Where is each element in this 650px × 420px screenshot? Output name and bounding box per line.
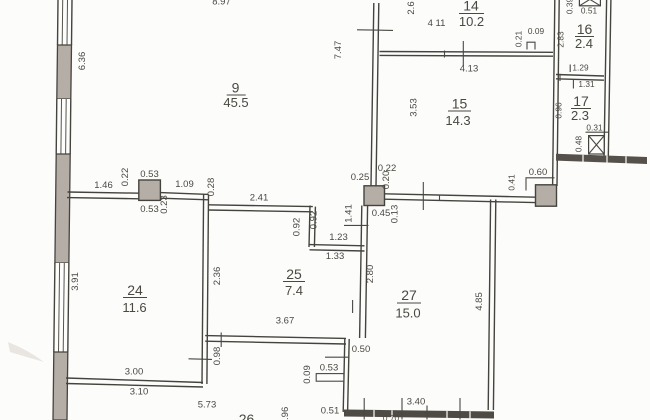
small tick on corridor wall xyxy=(439,195,441,201)
svg-text:0.53: 0.53 xyxy=(140,204,159,215)
tick for 1.29 xyxy=(569,65,571,73)
svg-text:2.4: 2.4 xyxy=(575,36,593,51)
svg-text:3.67: 3.67 xyxy=(276,316,295,327)
dimension tick 7.47 crossing wall 9/14 xyxy=(357,29,393,32)
svg-text:4 11: 4 11 xyxy=(428,18,446,29)
room 15 label xyxy=(445,96,471,129)
wall between rooms 9 and 24, right part xyxy=(160,193,208,200)
svg-text:14: 14 xyxy=(463,0,479,14)
svg-text:0.09: 0.09 xyxy=(528,26,545,36)
svg-text:26: 26 xyxy=(239,411,255,420)
joint tick on wall 14/15 xyxy=(444,51,446,58)
svg-text:0.51: 0.51 xyxy=(581,6,598,16)
bracket line for 1.41 xyxy=(344,224,369,226)
svg-text:27: 27 xyxy=(401,287,417,303)
svg-text:0.31: 0.31 xyxy=(586,123,603,133)
svg-text:0.45: 0.45 xyxy=(372,208,391,219)
svg-text:0.92: 0.92 xyxy=(292,218,303,237)
svg-text:5.73: 5.73 xyxy=(198,400,217,411)
svg-text:1.33: 1.33 xyxy=(326,251,345,262)
wall left of niche 16/17 column xyxy=(553,0,560,186)
svg-text:24: 24 xyxy=(127,282,143,298)
svg-text:0.96: 0.96 xyxy=(554,102,564,119)
bracket line for 0.31 xyxy=(586,131,609,133)
svg-text:0.41: 0.41 xyxy=(507,174,517,191)
svg-text:0.39: 0.39 xyxy=(565,0,575,14)
svg-text:0.92: 0.92 xyxy=(309,211,320,230)
svg-text:1.31: 1.31 xyxy=(578,79,595,89)
ventilation box top of column 16 xyxy=(579,0,600,6)
left outer wall: solid segment 2 xyxy=(55,154,70,263)
svg-text:11.6: 11.6 xyxy=(122,300,146,315)
svg-text:45.5: 45.5 xyxy=(223,95,248,110)
room 9 label xyxy=(223,80,248,111)
svg-text:1.23: 1.23 xyxy=(329,232,348,243)
room 17 label xyxy=(571,93,591,123)
corridor wall (top of room 27) xyxy=(385,194,536,203)
wall between rooms 9 and 24, left part xyxy=(67,192,139,199)
bracket for 0.41 at pillar xyxy=(526,178,555,191)
left outer wall: solid segment 1 xyxy=(57,45,72,99)
tick left of wall 25/27 xyxy=(352,300,354,313)
tick for 1.31 xyxy=(572,80,574,89)
svg-text:0.51: 0.51 xyxy=(321,406,340,417)
ticks crossing bottom outer wall xyxy=(364,398,460,420)
wall between 16 and 17 xyxy=(556,75,604,81)
svg-text:2.83: 2.83 xyxy=(556,31,566,48)
room 14 label xyxy=(459,0,484,29)
hatched slab below 16/17 column xyxy=(556,154,647,164)
svg-text:1.29: 1.29 xyxy=(572,63,589,73)
svg-text:0.09: 0.09 xyxy=(302,365,313,384)
svg-text:3.91: 3.91 xyxy=(70,272,81,291)
tick on room 25 bottom wall xyxy=(220,333,222,348)
svg-text:0.48: 0.48 xyxy=(574,136,584,153)
room 27 label xyxy=(395,287,421,321)
left outer wall: window segment 1 xyxy=(58,0,73,45)
svg-text:2.3: 2.3 xyxy=(571,108,589,123)
svg-text:25: 25 xyxy=(286,266,302,282)
right outer wall xyxy=(604,0,611,157)
left outer wall: window segment 3 xyxy=(54,263,69,352)
svg-text:2.6: 2.6 xyxy=(406,1,417,14)
tick for 0.98 crossing wall 24/25 xyxy=(189,358,213,361)
svg-text:0.60: 0.60 xyxy=(529,167,548,178)
faint scan smudge bottom-left xyxy=(8,342,44,362)
svg-text:0.28: 0.28 xyxy=(206,178,217,197)
svg-text:0.23: 0.23 xyxy=(159,195,170,214)
room 27 left wall lower part xyxy=(343,339,349,412)
svg-text:9: 9 xyxy=(232,80,240,96)
tick at left end of wall 16/17 xyxy=(559,74,561,81)
svg-text:0.98: 0.98 xyxy=(212,347,223,366)
svg-text:1.41: 1.41 xyxy=(344,204,355,223)
stepped wall room 25: lower horizontal xyxy=(310,245,365,251)
svg-text:2.80: 2.80 xyxy=(365,265,376,284)
svg-text:6.36: 6.36 xyxy=(77,52,88,71)
room 27 right wall xyxy=(488,200,496,411)
svg-text:3.40: 3.40 xyxy=(407,397,426,408)
room 25 label xyxy=(283,266,305,298)
svg-text:4.85: 4.85 xyxy=(474,292,485,311)
door niche symbol on wall 14/15 xyxy=(527,42,535,49)
room 27 bottom outer wall (hatched) xyxy=(344,410,494,419)
svg-text:16: 16 xyxy=(577,21,593,37)
svg-text:0.53: 0.53 xyxy=(140,169,159,180)
svg-text:0.25: 0.25 xyxy=(351,172,370,183)
svg-text:0.50: 0.50 xyxy=(352,344,371,355)
pillar at corridor right xyxy=(536,185,557,206)
wall between rooms 9 and 14/15 xyxy=(371,3,379,186)
svg-text:3.53: 3.53 xyxy=(409,98,420,117)
svg-text:8.97: 8.97 xyxy=(212,0,231,8)
room 16 label xyxy=(575,21,594,51)
svg-text:7.47: 7.47 xyxy=(333,41,344,60)
svg-text:1.46: 1.46 xyxy=(94,180,113,191)
svg-text:17: 17 xyxy=(573,93,589,109)
long tick crossing corridor wall xyxy=(422,182,424,210)
wall between rooms 24 and 25 xyxy=(202,194,209,384)
svg-text:2.36: 2.36 xyxy=(212,267,223,286)
svg-text:15: 15 xyxy=(452,96,468,112)
wall between rooms 14 and 15 xyxy=(380,52,554,57)
svg-text:0.13: 0.13 xyxy=(390,205,401,224)
svg-text:0.22: 0.22 xyxy=(120,168,131,187)
svg-text:10.2: 10.2 xyxy=(459,14,484,29)
svg-text:14.3: 14.3 xyxy=(445,113,470,128)
svg-text:3.00: 3.00 xyxy=(125,367,144,378)
left outer wall: window segment 2 xyxy=(56,99,71,154)
svg-text:4.13: 4.13 xyxy=(460,64,479,75)
svg-text:0.21: 0.21 xyxy=(514,31,524,48)
svg-text:0.70: 0.70 xyxy=(383,413,400,420)
svg-text:0.53: 0.53 xyxy=(320,363,339,374)
svg-text:15.0: 15.0 xyxy=(395,306,420,321)
svg-text:3.10: 3.10 xyxy=(130,387,149,398)
duct bar outline near room 25 bottom xyxy=(316,374,344,382)
wall between rooms 25 and 27 xyxy=(360,206,368,339)
left outer wall: solid segment 3 xyxy=(53,352,68,420)
room 25 bottom wall xyxy=(205,336,346,344)
svg-text:0.96: 0.96 xyxy=(280,407,291,420)
svg-text:1.09: 1.09 xyxy=(175,179,194,190)
room 24 bottom wall xyxy=(66,378,203,387)
svg-text:0.20: 0.20 xyxy=(381,171,392,190)
svg-text:7.4: 7.4 xyxy=(285,283,303,298)
stepped wall room 25 top: horizontal upper xyxy=(208,205,313,212)
ventilation box in room 17 xyxy=(589,136,605,154)
dimension tick 4.13 on wall 14/15 xyxy=(462,41,464,66)
pillar at corridor left xyxy=(364,186,385,206)
svg-text:2.41: 2.41 xyxy=(250,193,269,204)
stepped wall room 25: vertical drop xyxy=(309,206,315,248)
pier box in wall 9/24 xyxy=(139,180,161,200)
bracket line for 0.50 xyxy=(325,356,349,358)
room 24 label xyxy=(122,282,147,315)
